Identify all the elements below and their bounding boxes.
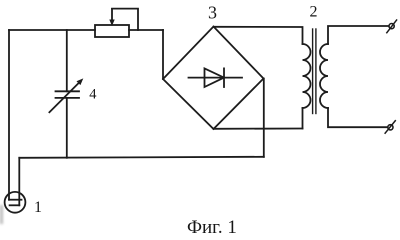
diode inside bridge	[189, 68, 243, 87]
terminal bottom output	[385, 121, 395, 134]
svg-text:Фиг. 1: Фиг. 1	[187, 217, 237, 236]
wire bridge right vertex down to bottom bus	[263, 79, 265, 157]
wire top bus right segment	[129, 29, 163, 31]
svg-text:3: 3	[208, 3, 217, 23]
electrode lower inside source	[10, 204, 20, 206]
bridge rectifier 3 (diamond)	[163, 27, 264, 130]
transformer core	[312, 29, 314, 114]
transformer primary winding	[303, 44, 311, 108]
transformer secondary winding	[320, 44, 328, 108]
wire left vertical	[8, 30, 10, 200]
wire secondary bottom lead to terminal	[328, 108, 387, 127]
svg-text:1: 1	[34, 199, 42, 216]
wire bridge top vertex to transformer primary	[214, 27, 303, 44]
svg-text:2: 2	[310, 4, 318, 21]
wire source right branch	[18, 158, 20, 206]
wire down to bridge left vertex	[162, 30, 164, 79]
source 1 (discharge device circle)	[5, 192, 26, 213]
wire wiper loop to right terminal	[112, 9, 138, 30]
wire primary bottom lead	[302, 108, 304, 129]
svg-text:4: 4	[89, 87, 97, 103]
wire secondary top lead to terminal	[328, 26, 389, 44]
potentiometer wiper arrow	[109, 9, 114, 26]
wire capacitor branch top	[66, 30, 68, 91]
capacitor 4 plates	[56, 91, 80, 98]
capacitor variable arrow	[49, 78, 83, 112]
wire capacitor branch bottom	[66, 98, 68, 158]
wire bottom bus	[19, 157, 263, 158]
scan smudge left edge	[0, 205, 3, 224]
terminal top output	[387, 20, 397, 33]
electrode upper inside source	[9, 199, 22, 201]
wire bridge bottom vertex to primary	[214, 128, 303, 130]
wire top bus left segment	[9, 29, 95, 31]
resistor R (potentiometer body)	[95, 25, 129, 37]
